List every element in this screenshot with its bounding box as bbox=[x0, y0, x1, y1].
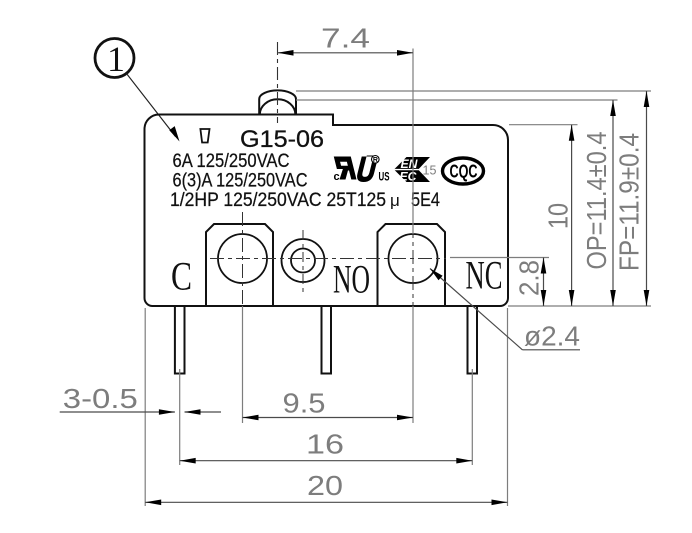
svg-text:6(3)A 125/250VAC: 6(3)A 125/250VAC bbox=[173, 171, 308, 192]
pin 2 (NO) bbox=[322, 306, 332, 374]
extension line NC center vertical (7.4) bbox=[412, 49, 414, 235]
CQC logo bbox=[443, 158, 484, 184]
centerline NO vertical bbox=[302, 230, 304, 292]
balloon circle 1 bbox=[95, 39, 134, 80]
screw circle C bbox=[218, 234, 267, 283]
svg-text:2.8: 2.8 bbox=[513, 260, 544, 296]
svg-text:1: 1 bbox=[107, 39, 125, 79]
extension line body left (20) bbox=[144, 308, 146, 506]
svg-text:US: US bbox=[379, 172, 390, 184]
extension line OP top bbox=[296, 99, 618, 101]
svg-text:R: R bbox=[373, 157, 378, 164]
dim line 16 bbox=[180, 460, 473, 462]
dim line 2.8 bbox=[543, 258, 545, 307]
horizontal centerline through terminals bbox=[210, 258, 446, 260]
terminal block C bbox=[206, 224, 273, 306]
dim line 20 bbox=[145, 501, 507, 503]
dim line 9.5 bbox=[243, 417, 414, 419]
extension line pin3 center (16) bbox=[471, 369, 473, 465]
extension line pin1 center (16) bbox=[179, 369, 181, 465]
switch body outline bbox=[145, 115, 509, 307]
svg-text:NO: NO bbox=[333, 257, 370, 302]
terminal block NC bbox=[378, 224, 446, 306]
pin 3 (NC) bbox=[468, 306, 478, 374]
extension line 10 top bbox=[509, 124, 578, 126]
svg-text:20: 20 bbox=[307, 470, 343, 501]
svg-text:16: 16 bbox=[306, 429, 344, 460]
svg-text:μ: μ bbox=[390, 191, 400, 210]
svg-text:G15-06: G15-06 bbox=[240, 126, 324, 153]
svg-text:OP=11.4±0.4: OP=11.4±0.4 bbox=[581, 132, 612, 270]
dim line 10 bbox=[571, 125, 573, 306]
dim 3-0.5 leader line bbox=[60, 411, 175, 413]
svg-text:EN: EN bbox=[401, 159, 419, 171]
svg-text:C: C bbox=[171, 254, 192, 299]
plunger centerline bbox=[277, 42, 279, 123]
extension line screw NC down (9.5) bbox=[412, 306, 414, 423]
centerline NC vertical bbox=[412, 224, 414, 306]
extension line body right (20) bbox=[507, 308, 509, 506]
svg-text:3-0.5: 3-0.5 bbox=[63, 383, 138, 414]
svg-text:15: 15 bbox=[423, 164, 437, 178]
svg-text:7.4: 7.4 bbox=[321, 23, 370, 54]
svg-text:6A 125/250VAC: 6A 125/250VAC bbox=[173, 151, 290, 172]
svg-text:ø2.4: ø2.4 bbox=[524, 321, 580, 352]
balloon leader line bbox=[126, 73, 175, 136]
svg-text:EC: EC bbox=[400, 172, 418, 184]
dim line OP bbox=[612, 100, 614, 306]
NO terminal inner ring bbox=[291, 249, 315, 273]
dim 3-0.5 tail line bbox=[185, 411, 222, 413]
extension line FP top bbox=[296, 90, 651, 92]
centerline C vertical bbox=[242, 212, 244, 306]
svg-text:FP=11.9±0.4: FP=11.9±0.4 bbox=[613, 133, 644, 271]
svg-text:5E4: 5E4 bbox=[411, 190, 440, 211]
pin 1 (C) bbox=[175, 306, 185, 374]
svg-text:CQC: CQC bbox=[450, 162, 478, 182]
svg-text:10: 10 bbox=[542, 203, 573, 229]
NO terminal outer ring bbox=[282, 239, 325, 282]
ENEC logo bbox=[394, 157, 430, 184]
plunger bbox=[259, 90, 296, 114]
svg-text:1/2HP 125/250VAC 25T125: 1/2HP 125/250VAC 25T125 bbox=[170, 190, 386, 211]
extension line 2.8 bbox=[450, 257, 549, 259]
marking trapezoid symbol bbox=[200, 129, 209, 143]
svg-text:c: c bbox=[334, 171, 340, 183]
extension line bottom right bbox=[508, 305, 651, 307]
balloon leader arrowhead bbox=[169, 126, 179, 141]
svg-text:NC: NC bbox=[466, 253, 503, 298]
plunger inner arc bbox=[260, 99, 296, 114]
dim line FP bbox=[646, 91, 648, 306]
extension line screw C down (9.5) bbox=[242, 306, 244, 423]
leader diameter 2.4 bbox=[430, 269, 522, 350]
svg-text:9.5: 9.5 bbox=[283, 388, 326, 419]
UL logo bbox=[334, 156, 390, 184]
dim line 7.4 bbox=[278, 52, 414, 54]
screw circle NC bbox=[389, 234, 438, 283]
